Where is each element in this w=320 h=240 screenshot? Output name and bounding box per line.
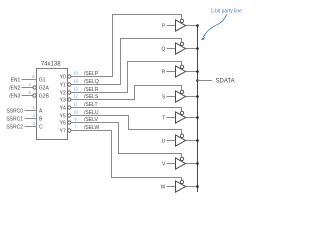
- svg-text:/EN3: /EN3: [9, 93, 20, 99]
- svg-text:Y7: Y7: [60, 128, 66, 134]
- svg-text:9: 9: [74, 116, 77, 121]
- svg-text:T: T: [162, 116, 165, 122]
- svg-text:2: 2: [33, 113, 36, 118]
- svg-text:10: 10: [73, 109, 78, 114]
- svg-text:13: 13: [73, 86, 78, 91]
- svg-text:Y5: Y5: [60, 113, 66, 119]
- svg-text:15: 15: [73, 70, 78, 75]
- svg-text:C: C: [39, 124, 43, 130]
- svg-text:1-bit party line: 1-bit party line: [211, 8, 243, 14]
- svg-text:G1: G1: [39, 77, 46, 83]
- svg-text:SSRC1: SSRC1: [6, 116, 23, 122]
- svg-text:74x138: 74x138: [41, 62, 61, 68]
- svg-text:11: 11: [73, 101, 78, 106]
- svg-text:SSRC0: SSRC0: [6, 108, 23, 114]
- svg-text:G2B: G2B: [39, 93, 50, 99]
- svg-text:1: 1: [33, 105, 36, 110]
- svg-text:Y3: Y3: [60, 97, 66, 103]
- svg-text:U: U: [162, 139, 166, 145]
- svg-text:G2A: G2A: [39, 85, 50, 91]
- svg-text:6: 6: [32, 74, 35, 79]
- svg-text:Y1: Y1: [60, 82, 66, 88]
- svg-text:SDATA: SDATA: [216, 79, 235, 85]
- svg-text:4: 4: [28, 82, 31, 87]
- svg-text:SSRC2: SSRC2: [6, 124, 23, 130]
- svg-text:R: R: [162, 70, 166, 76]
- svg-text:3: 3: [33, 121, 36, 126]
- svg-text:W: W: [161, 185, 166, 191]
- svg-text:/EN2: /EN2: [9, 85, 20, 91]
- svg-text:EN1: EN1: [11, 77, 21, 83]
- svg-text:5: 5: [28, 90, 31, 95]
- svg-text:V: V: [162, 162, 166, 168]
- svg-text:Y2: Y2: [60, 90, 66, 96]
- svg-text:Y6: Y6: [60, 120, 66, 126]
- svg-text:Y4: Y4: [60, 105, 66, 111]
- svg-text:7: 7: [74, 124, 77, 129]
- svg-text:Q: Q: [161, 47, 165, 53]
- svg-text:Y0: Y0: [60, 74, 66, 80]
- svg-text:14: 14: [73, 78, 78, 83]
- svg-text:12: 12: [73, 93, 78, 98]
- svg-text:P: P: [162, 24, 166, 30]
- svg-text:S: S: [162, 95, 166, 101]
